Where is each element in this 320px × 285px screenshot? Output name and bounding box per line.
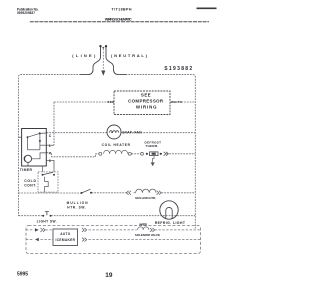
svg-text:HTR. SW.: HTR. SW. xyxy=(67,206,86,210)
svg-text:5995209837: 5995209837 xyxy=(17,11,35,15)
svg-text:WATER: WATER xyxy=(139,223,147,227)
svg-text:COMPRESSOR: COMPRESSOR xyxy=(128,99,164,104)
svg-text:5995: 5995 xyxy=(17,272,28,278)
svg-text:REFRIG. LIGHT: REFRIG. LIGHT xyxy=(155,221,186,225)
svg-text:WHITE: WHITE xyxy=(171,100,182,104)
svg-text:CONT.: CONT. xyxy=(24,183,36,187)
svg-text:SEE: SEE xyxy=(141,93,151,98)
svg-text:ICEMAKER: ICEMAKER xyxy=(56,238,76,242)
svg-text:19: 19 xyxy=(105,272,113,279)
svg-text:COLD: COLD xyxy=(24,179,36,183)
svg-text:AUTO: AUTO xyxy=(60,232,71,236)
svg-text:4: 4 xyxy=(49,151,51,155)
svg-text:T/T18BPH: T/T18BPH xyxy=(112,7,132,11)
svg-text:LIGHT SW.: LIGHT SW. xyxy=(37,219,57,223)
svg-text:MULLION: MULLION xyxy=(67,201,89,205)
svg-text:S193882: S193882 xyxy=(164,66,192,72)
svg-text:COIL HEATER: COIL HEATER xyxy=(102,143,131,147)
svg-text:WIRING: WIRING xyxy=(136,104,157,109)
svg-text:TIMER: TIMER xyxy=(20,168,33,172)
svg-text:3: 3 xyxy=(49,159,51,163)
svg-text:1: 1 xyxy=(49,144,51,148)
svg-text:RED: RED xyxy=(108,100,115,104)
svg-text:SOLENOID VALVE: SOLENOID VALVE xyxy=(135,233,160,237)
svg-text:C: C xyxy=(49,134,52,138)
svg-text:(NEUTRAL): (NEUTRAL) xyxy=(111,53,148,58)
svg-text:MULLION HTR.: MULLION HTR. xyxy=(135,196,156,200)
svg-text:THERM.: THERM. xyxy=(146,144,159,148)
svg-text:WIRING SCHEMATIC: WIRING SCHEMATIC xyxy=(105,18,132,22)
svg-text:(LINE): (LINE) xyxy=(72,53,96,58)
svg-text:EVAP. FAN: EVAP. FAN xyxy=(123,131,143,135)
